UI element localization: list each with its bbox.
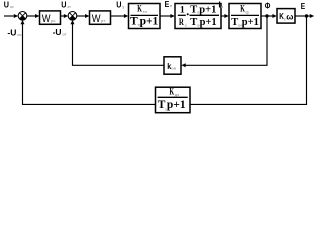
regulator block W_rt (90, 11, 111, 25)
svg-text:K: K (240, 4, 245, 14)
svg-text:U: U (61, 0, 66, 10)
svg-text:K: K (137, 3, 142, 13)
wire input to summator 1 (4, 14, 18, 18)
svg-text:U: U (4, 0, 9, 10)
summator 2 (field current loop) (68, 12, 77, 21)
wire output E with junction and arrow (295, 14, 314, 18)
svg-text:ф: ф (245, 9, 249, 14)
node Uu label (116, 0, 125, 10)
svg-text:W: W (42, 13, 51, 25)
svg-text:E: E (301, 1, 306, 11)
summator 1 (EMF loop) (18, 12, 27, 21)
svg-text:p+1: p+1 (167, 99, 186, 111)
wire Wrt to converter block (111, 14, 129, 18)
EMF sensor block K/(Te p+1) (156, 86, 191, 112)
svg-text:T: T (190, 4, 197, 15)
node Phi label (265, 1, 271, 11)
wire EMF feedback to summator 1 (21, 20, 156, 105)
svg-text:-U: -U (53, 27, 62, 37)
svg-text:1: 1 (180, 4, 185, 15)
wire flux feedback to summator 2 (71, 20, 165, 65)
feedback coefficient block k_ov (164, 57, 181, 74)
svg-text:от: от (62, 32, 66, 37)
wire summator 1 to block Wrs (27, 14, 40, 18)
node E output label (301, 1, 306, 11)
svg-text:Φ: Φ (265, 1, 271, 11)
svg-text:p+1: p+1 (200, 17, 217, 28)
node Uzt label (61, 0, 71, 10)
svg-text:зт: зт (67, 4, 71, 9)
node Uzs input label (4, 0, 15, 10)
svg-text:ов: ов (171, 65, 176, 70)
node -Uot feedback label (53, 27, 67, 37)
node Iv label (218, 0, 224, 9)
svg-text:T: T (190, 17, 197, 28)
svg-text:ω: ω (286, 11, 293, 21)
svg-text:W: W (92, 13, 101, 25)
regulator block W_rs (40, 11, 61, 25)
svg-text:э: э (185, 22, 187, 27)
svg-text:p+1: p+1 (199, 4, 216, 15)
wire flux block to multiplier, junction at Phi (261, 14, 277, 18)
svg-text:-U: -U (7, 27, 16, 37)
wire flux feedback down from Phi junction (181, 16, 267, 67)
svg-text:рт: рт (101, 18, 105, 23)
svg-text:R: R (179, 18, 184, 28)
svg-text:U: U (116, 0, 121, 10)
svg-text:T: T (231, 17, 238, 28)
multiplier block Kc*omega (277, 9, 295, 24)
wire field circuit to flux block (221, 14, 229, 18)
node Ep label (165, 0, 173, 9)
svg-text:p+1: p+1 (140, 15, 159, 27)
svg-text:тп: тп (143, 9, 148, 14)
converter block Ktp/(Ttp p+1) (129, 3, 161, 28)
wire EMF feedback down from E junction (191, 16, 307, 104)
wire Wrs to summator 2 (61, 14, 69, 18)
wire converter to field-circuit block (160, 14, 175, 18)
svg-text:p+1: p+1 (242, 17, 259, 28)
node -Uos feedback label (7, 27, 22, 37)
wire summator 2 to block Wrt (77, 14, 90, 18)
svg-text:дэ: дэ (175, 92, 180, 97)
flux block Kf/(Tvx p+1) (229, 4, 261, 29)
svg-text:K: K (170, 86, 175, 96)
field circuit block 1/R * (Tv p+1)/(Tve p+1) (175, 4, 221, 29)
